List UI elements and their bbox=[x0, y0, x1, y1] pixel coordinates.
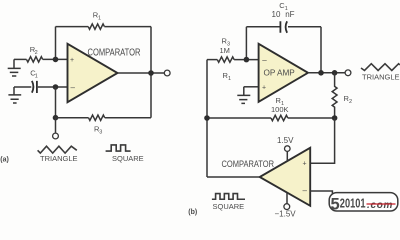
svg-text:OP AMP: OP AMP bbox=[264, 69, 296, 78]
svg-text:2: 2 bbox=[35, 50, 38, 56]
svg-text:10: 10 bbox=[272, 10, 281, 19]
triangle waveform symbol bbox=[38, 146, 77, 153]
wire feedback left vertical bbox=[245, 27, 247, 60]
wire right vertical bbox=[150, 27, 152, 118]
svg-text:−1.5V: −1.5V bbox=[275, 209, 297, 217]
wire R2 to noninverting input bbox=[43, 58, 68, 60]
svg-text:TRIANGLE: TRIANGLE bbox=[40, 154, 78, 163]
resistor R1 bbox=[88, 24, 104, 29]
svg-text:+: + bbox=[262, 85, 266, 92]
wire R3 left lead bbox=[56, 117, 89, 119]
wire left vertical bbox=[206, 60, 208, 177]
svg-text:1: 1 bbox=[98, 16, 101, 22]
svg-text:.com: .com bbox=[367, 200, 393, 211]
wire C1 left lead bbox=[14, 86, 31, 88]
svg-text:1.5V: 1.5V bbox=[277, 136, 294, 145]
wire top feedback horizontal right bbox=[104, 26, 151, 28]
comparator U1 bbox=[68, 44, 118, 102]
wire R2 left lead bbox=[14, 58, 27, 60]
wire comparator output bbox=[207, 176, 260, 178]
wire 100K right lead bbox=[288, 117, 335, 119]
wire 100K left lead bbox=[207, 117, 271, 119]
wire output bbox=[308, 72, 345, 74]
output terminal bbox=[345, 70, 351, 76]
svg-text:1: 1 bbox=[35, 73, 38, 79]
wire -1.5V stem bbox=[286, 193, 288, 204]
output terminal bbox=[164, 70, 170, 76]
wire top feedback left bbox=[246, 26, 279, 28]
node + input junction bbox=[53, 57, 59, 63]
wire feedback right vertical bbox=[320, 27, 322, 73]
wire R2 junction down to comparator + bbox=[310, 118, 334, 163]
resistor R2 bbox=[27, 57, 43, 62]
svg-text:+: + bbox=[303, 161, 307, 168]
svg-text:COMPARATOR: COMPARATOR bbox=[222, 159, 275, 169]
node output junction bbox=[148, 70, 154, 76]
-1.5V terminal bbox=[284, 204, 290, 210]
svg-text:(b): (b) bbox=[188, 209, 197, 216]
svg-text:20101: 20101 bbox=[340, 197, 366, 211]
svg-text:+: + bbox=[70, 57, 74, 64]
svg-text:TRIANGLE: TRIANGLE bbox=[362, 73, 400, 82]
svg-text:COMPARATOR: COMPARATOR bbox=[88, 47, 141, 58]
capacitor C1 bbox=[32, 81, 37, 93]
wire R3 right lead bbox=[234, 59, 259, 61]
wire top feedback horizontal left bbox=[56, 26, 89, 28]
svg-text:2: 2 bbox=[349, 99, 352, 105]
wire 1.5V stem bbox=[286, 151, 288, 161]
1.5V terminal bbox=[285, 146, 291, 152]
wire R3 right lead bbox=[105, 117, 151, 119]
triangle output terminal bbox=[53, 133, 59, 139]
svg-text:–: – bbox=[262, 55, 267, 64]
svg-text:(a): (a) bbox=[0, 157, 9, 164]
triangle waveform symbol bbox=[361, 64, 400, 71]
wire C1 to inverting input bbox=[38, 86, 68, 88]
wire top feedback right bbox=[288, 26, 321, 28]
svg-text:5: 5 bbox=[331, 196, 340, 214]
node feedback junction bbox=[318, 70, 324, 76]
svg-text:100K: 100K bbox=[271, 105, 289, 114]
node R2 bottom junction bbox=[332, 115, 338, 121]
ground op-amp bbox=[237, 87, 250, 104]
node inverting input junction bbox=[244, 57, 250, 63]
svg-text:nF: nF bbox=[285, 10, 294, 19]
resistor R1 bbox=[271, 115, 288, 120]
ground upper-left bbox=[8, 59, 21, 76]
wire - input to divider bbox=[310, 191, 332, 196]
node R3 left junction bbox=[53, 115, 59, 121]
svg-text:3: 3 bbox=[99, 130, 102, 136]
square waveform symbol bbox=[212, 194, 245, 200]
node 100K left junction bbox=[204, 115, 210, 121]
wire terminal stem bbox=[55, 118, 57, 133]
wire output bbox=[118, 72, 165, 74]
svg-text:1M: 1M bbox=[220, 46, 230, 55]
wire R3 left lead bbox=[207, 59, 217, 61]
svg-text:SQUARE: SQUARE bbox=[112, 154, 144, 163]
resistor R3 bbox=[89, 115, 105, 120]
wire top feedback left vertical bbox=[55, 27, 57, 60]
wire inverting node down to R3 bbox=[55, 87, 57, 118]
square waveform symbol bbox=[106, 145, 131, 151]
wire ground to + input bbox=[244, 86, 259, 88]
op-amp U2 bbox=[259, 44, 308, 102]
svg-text:–: – bbox=[71, 83, 76, 92]
resistor R3 bbox=[217, 57, 234, 62]
comparator U3 bbox=[260, 148, 311, 206]
ground lower-left bbox=[8, 87, 21, 103]
watermark logo box bbox=[329, 193, 398, 214]
node R2 top junction bbox=[332, 70, 338, 76]
svg-text:1: 1 bbox=[228, 76, 231, 82]
resistor R2 bbox=[332, 73, 337, 118]
svg-text:–: – bbox=[303, 186, 308, 195]
node - input junction bbox=[53, 84, 59, 90]
capacitor C1 bbox=[280, 21, 287, 33]
svg-text:SQUARE: SQUARE bbox=[213, 202, 245, 211]
